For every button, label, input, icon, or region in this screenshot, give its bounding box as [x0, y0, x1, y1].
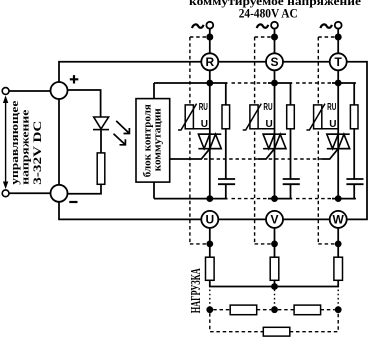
- gate bus dashed S-T: [269, 158, 322, 160]
- node dot T bottom rail: [335, 195, 342, 202]
- control block box: [136, 99, 170, 183]
- module R dashed enclosure: [190, 37, 210, 244]
- node dot T gate rail: [335, 80, 342, 87]
- control input small terminal bottom: [2, 190, 9, 197]
- gate wire to triac S: [258, 149, 275, 159]
- dotted link V to delta: [274, 290, 276, 307]
- gate bus rail dashed segment R-S: [232, 82, 269, 84]
- relay terminal W: [330, 211, 347, 228]
- wire between input terminals: [58, 99, 60, 185]
- wire V to load: [274, 228, 276, 257]
- AC tilde phase R: [192, 24, 204, 28]
- capacitor snubber T: [346, 178, 363, 180]
- varistor RU module S: [243, 102, 275, 130]
- AC tilde phase S: [257, 24, 269, 28]
- LED light arrow 2: [114, 134, 126, 145]
- main loop wire: top rail, right edge, bottom rail: [59, 62, 367, 220]
- varistor RU module T: [306, 102, 338, 130]
- bottom module rail dashed segment S-T: [296, 198, 332, 200]
- LED diode: [93, 117, 109, 130]
- module S dashed enclosure: [255, 37, 275, 244]
- wire small terminal bottom to minus: [9, 192, 51, 194]
- varistor RU module R: [178, 102, 210, 130]
- wire control block bottom riser: [153, 182, 155, 199]
- gate bus rail dashed segment S-T: [296, 82, 332, 84]
- node dot delta left: [206, 306, 213, 313]
- svg-text:НАГРУЗКА: НАГРУЗКА: [189, 268, 204, 314]
- wire control block top riser: [153, 83, 155, 99]
- gate wire to triac R: [170, 149, 210, 159]
- resistor snubber S: [287, 105, 295, 129]
- delta resistor V-W: [294, 305, 321, 315]
- control input small terminal top: [2, 88, 9, 95]
- svg-text:V: V: [270, 213, 278, 227]
- wire phase R drop: [209, 29, 211, 199]
- wire small terminal top to plus: [9, 90, 51, 92]
- node junction dot below terminal R: [206, 34, 213, 41]
- relay terminal R: [201, 53, 218, 70]
- node junction dot below terminal S: [271, 34, 278, 41]
- capacitor snubber R: [218, 178, 235, 180]
- wire phase S drop: [274, 29, 276, 199]
- node dot S bottom rail: [271, 195, 278, 202]
- terminal circle phase T: [335, 22, 342, 29]
- snubber branch module R: [225, 83, 227, 105]
- node dot S gate rail: [271, 80, 278, 87]
- resistor snubber T: [350, 105, 358, 129]
- gate bus rail solid segment T: [332, 82, 356, 84]
- node dot below V: [271, 241, 278, 248]
- snubber branch module S: [290, 83, 292, 105]
- module T dashed enclosure: [318, 37, 338, 244]
- gate bus dashed R-S: [204, 158, 258, 160]
- load resistor phase V: [270, 257, 279, 280]
- wire LED to resistor: [100, 130, 102, 153]
- capacitor snubber S: [283, 178, 300, 180]
- node dot below U: [206, 241, 213, 248]
- dashed wire delta row: [213, 309, 230, 311]
- terminal circle phase S: [271, 22, 278, 29]
- bottom module rail solid segment R: [154, 198, 228, 200]
- AC tilde phase T: [320, 24, 332, 28]
- LED light arrow 1: [116, 121, 129, 134]
- svg-text:RU: RU: [263, 102, 272, 113]
- wire U to load: [209, 228, 211, 257]
- snubber branch module T: [353, 83, 355, 105]
- svg-text:3-32V DC: 3-32V DC: [32, 121, 44, 185]
- node dot delta mid: [271, 306, 278, 313]
- dashed bottom loop: [210, 313, 263, 332]
- svg-text:управляющее: управляющее: [10, 100, 21, 185]
- control voltage label: [10, 100, 44, 185]
- dotted link U to delta: [209, 290, 211, 307]
- node junction dot below terminal T: [335, 34, 342, 41]
- svg-text:R: R: [205, 55, 214, 69]
- wire W to load: [337, 228, 339, 257]
- bottom module rail solid segment T: [332, 198, 356, 200]
- relay terminal T: [330, 53, 347, 70]
- svg-text:напряжение: напряжение: [20, 109, 31, 185]
- svg-text:коммутации: коммутации: [151, 108, 163, 172]
- voltage range arrow: [3, 96, 8, 190]
- svg-text:U: U: [205, 213, 214, 227]
- node dot R bottom rail: [206, 195, 213, 202]
- minus sign: [69, 201, 77, 203]
- gate bus rail solid segment R: [154, 82, 228, 84]
- bottom module rail dashed segment R-S: [232, 198, 269, 200]
- node dot below W: [335, 241, 342, 248]
- terminal circle phase R: [206, 22, 213, 29]
- resistor snubber R: [222, 105, 230, 129]
- minus input terminal: [51, 185, 68, 202]
- relay terminal U: [201, 211, 218, 228]
- relay terminal V: [266, 211, 283, 228]
- wire plus to LED: [68, 90, 101, 117]
- resistor input circuit: [97, 153, 105, 184]
- svg-text:RU: RU: [199, 102, 208, 113]
- svg-text:S: S: [270, 55, 278, 69]
- node dot R gate rail: [206, 80, 213, 87]
- wire phase T drop: [337, 29, 339, 199]
- load resistor phase U: [206, 257, 215, 280]
- svg-text:RU: RU: [327, 102, 336, 113]
- triac module T: [327, 134, 350, 149]
- svg-text:T: T: [335, 55, 343, 69]
- plus sign: [70, 75, 79, 83]
- relay terminal S: [266, 53, 283, 70]
- delta resistor W-U: [263, 327, 290, 336]
- node dot star point: [271, 283, 278, 290]
- load resistor phase W: [334, 257, 343, 280]
- bottom module rail solid segment S: [268, 198, 292, 200]
- node dot delta right: [335, 306, 342, 313]
- wire resistor to minus: [68, 184, 102, 194]
- svg-text:24-480V AC: 24-480V AC: [239, 6, 298, 20]
- triac module S: [263, 134, 286, 149]
- triac module R: [198, 134, 221, 149]
- svg-text:W: W: [333, 213, 345, 227]
- star point wiring: [210, 280, 338, 286]
- wire from plus terminal up: [58, 82, 60, 99]
- gate bus rail solid segment S: [268, 82, 292, 84]
- delta resistor U-V: [230, 305, 257, 315]
- plus input terminal: [51, 82, 68, 99]
- gate wire to triac T: [322, 149, 338, 159]
- dotted link W to delta: [337, 290, 339, 307]
